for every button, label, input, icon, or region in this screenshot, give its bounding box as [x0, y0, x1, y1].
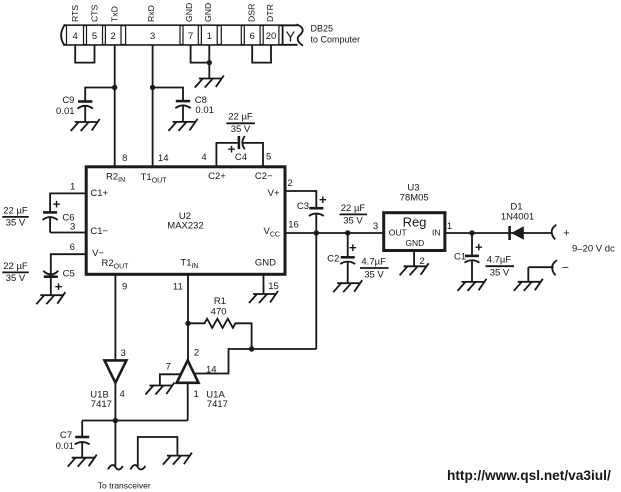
- svg-text:RTS: RTS: [70, 5, 80, 22]
- svg-text:20: 20: [266, 31, 277, 42]
- wire C4 loop pins 4-5: [216, 143, 263, 167]
- svg-text:9: 9: [122, 281, 127, 292]
- ground U2 pin 15: [249, 291, 278, 303]
- value 22uF 35V (C3): [340, 203, 368, 227]
- junction VCC / C3: [314, 230, 319, 235]
- svg-text:IN: IN: [432, 227, 441, 237]
- wire U3 pin 2 to ground: [413, 251, 415, 267]
- wire U2 pin 6 stub: [51, 254, 86, 274]
- wire VCC rail U2 pin 16 to regulator: [285, 232, 384, 234]
- svg-text:6: 6: [70, 242, 75, 253]
- wire U3 pin 1 to D1 anode: [445, 232, 552, 234]
- svg-text:–: –: [562, 261, 569, 273]
- svg-text:3: 3: [150, 31, 155, 42]
- connector J1 DB25 body: [61, 24, 303, 46]
- wire U2 pin 9 to U1B input: [114, 274, 116, 360]
- wire jumper DSR-DTR: [252, 45, 271, 63]
- svg-text:+: +: [55, 279, 63, 294]
- svg-text:35 V: 35 V: [6, 218, 26, 229]
- svg-text:3: 3: [373, 221, 378, 232]
- capacitor C3: [309, 208, 324, 233]
- svg-text:CTS: CTS: [90, 4, 100, 22]
- junction DB25 GND: [207, 60, 212, 65]
- svg-text:OUT: OUT: [389, 228, 407, 238]
- diode D1 1N4001: [510, 226, 524, 240]
- wire C9 branch: [85, 88, 115, 102]
- svg-text:22 µF: 22 µF: [341, 203, 366, 214]
- wire U1B output down: [114, 383, 116, 421]
- svg-text:14: 14: [158, 153, 169, 164]
- wire U2 pin 2 V+ stub: [285, 191, 316, 208]
- svg-text:http://www.qsl.net/va3iul/: http://www.qsl.net/va3iul/: [447, 468, 611, 483]
- value 4.7uF 35V (C1): [486, 255, 515, 279]
- svg-text:1N4001: 1N4001: [501, 211, 534, 222]
- svg-text:TxD: TxD: [110, 6, 120, 22]
- wire transceiver line 2 loop: [138, 437, 178, 466]
- ground - terminal: [514, 279, 543, 291]
- svg-text:V+: V+: [268, 188, 280, 199]
- terminal + 9-20V input: [552, 225, 570, 240]
- svg-text:22 µF: 22 µF: [3, 206, 28, 217]
- svg-text:22 µF: 22 µF: [3, 261, 28, 272]
- svg-text:C1−: C1−: [90, 226, 108, 237]
- svg-text:Y: Y: [286, 30, 296, 46]
- svg-text:2: 2: [420, 256, 425, 267]
- wire U2 pin 1 stub: [50, 193, 86, 212]
- capacitor C2: [340, 233, 355, 283]
- junction VCC / C2: [345, 230, 350, 235]
- wire - terminal to ground: [527, 267, 529, 282]
- junction bottom rail: [113, 418, 118, 423]
- cable mark line 1: [108, 465, 123, 469]
- svg-text:To transceiver: To transceiver: [98, 481, 151, 491]
- wire TxD from DB25 pin 2 to U2 pin 8: [114, 45, 116, 167]
- ground transceiver shield: [163, 453, 192, 465]
- junction C1: [469, 230, 474, 235]
- value 22uF 35V (C6): [2, 206, 29, 229]
- svg-text:7417: 7417: [91, 399, 112, 410]
- ground U3: [400, 263, 429, 275]
- wire jumper GND pins 7-1: [191, 45, 210, 63]
- ground U1A pin 7: [145, 383, 174, 395]
- value 22uF 35V (C4): [226, 112, 254, 135]
- svg-text:+: +: [349, 240, 357, 255]
- junction R1 / pin 11: [185, 321, 190, 326]
- svg-text:DSR: DSR: [247, 4, 257, 22]
- svg-text:22 µF: 22 µF: [228, 112, 253, 123]
- svg-text:35 V: 35 V: [364, 269, 384, 280]
- svg-text:1: 1: [447, 221, 452, 232]
- svg-text:RxD: RxD: [146, 5, 156, 22]
- svg-text:GND: GND: [405, 238, 424, 248]
- svg-text:0.01: 0.01: [56, 106, 75, 117]
- svg-text:2: 2: [194, 348, 199, 359]
- svg-text:3: 3: [70, 221, 75, 232]
- svg-text:to Computer: to Computer: [311, 35, 361, 45]
- svg-text:GND: GND: [184, 3, 194, 22]
- wire U2 pin 11 to U1A output: [187, 274, 189, 360]
- svg-text:2: 2: [288, 178, 293, 189]
- svg-text:C4: C4: [235, 152, 247, 163]
- wire U2 pin 3 stub: [50, 232, 86, 234]
- svg-text:0.01: 0.01: [195, 105, 214, 116]
- value 22uF 35V (C5): [2, 261, 29, 284]
- svg-text:+: +: [53, 197, 61, 212]
- regulator U3 78M05 body: [384, 213, 445, 251]
- svg-text:4: 4: [201, 152, 206, 163]
- svg-text:4.7µF: 4.7µF: [361, 256, 386, 267]
- svg-text:11: 11: [173, 281, 183, 292]
- svg-text:DTR: DTR: [265, 4, 275, 22]
- svg-text:35 V: 35 V: [343, 216, 363, 227]
- wire U2 pin 15 to ground: [263, 274, 265, 294]
- svg-text:MAX232: MAX232: [167, 221, 203, 232]
- svg-text:R1: R1: [214, 296, 226, 307]
- svg-text:4: 4: [73, 31, 78, 42]
- buffer U1A 7417: [177, 360, 199, 382]
- capacitor C5: [43, 271, 58, 295]
- svg-text:35 V: 35 V: [490, 268, 510, 279]
- op IC U2 MAX232 body: [86, 167, 285, 274]
- svg-text:9–20 V dc: 9–20 V dc: [572, 244, 615, 255]
- svg-text:4.7µF: 4.7µF: [487, 255, 512, 266]
- svg-text:14: 14: [206, 365, 217, 376]
- wire RxD from DB25 pin 3 to U2 pin 14: [152, 45, 154, 167]
- wire VCC to U1A pin 14: [195, 349, 316, 374]
- junction RxD / C8: [150, 85, 155, 90]
- capacitor C6: [43, 212, 58, 232]
- terminal - 9-20V input: [528, 260, 569, 275]
- buffer U1B 7417: [105, 360, 127, 382]
- wire C8 branch: [153, 88, 183, 102]
- junction R1 / VCC wire: [249, 346, 254, 351]
- svg-text:1: 1: [207, 31, 212, 42]
- wire U1A input down: [187, 383, 189, 421]
- svg-text:7: 7: [188, 31, 193, 42]
- ground DB25 GND: [195, 76, 224, 88]
- svg-text:1: 1: [194, 389, 199, 400]
- svg-text:C2: C2: [327, 253, 339, 264]
- wire jumper RTS-CTS: [75, 45, 94, 63]
- value 4.7uF 35V (C2): [360, 256, 389, 280]
- junction TxD / C9: [112, 85, 117, 90]
- svg-text:C5: C5: [63, 269, 75, 280]
- svg-text:2: 2: [111, 31, 116, 42]
- svg-text:1: 1: [70, 181, 75, 192]
- wire U1A pin 7 to ground: [160, 374, 184, 385]
- capacitor C7: [75, 421, 90, 458]
- svg-text:78M05: 78M05: [400, 192, 429, 203]
- wire DB25 GND to ground: [208, 63, 210, 79]
- capacitor C4: [239, 136, 245, 149]
- ground C2: [333, 280, 362, 292]
- resistor R1: [188, 319, 252, 349]
- capacitor C9: [78, 102, 93, 123]
- svg-text:7: 7: [166, 362, 171, 373]
- wire bottom rail: [82, 420, 188, 422]
- svg-text:6: 6: [250, 31, 255, 42]
- svg-text:C1+: C1+: [90, 188, 108, 199]
- svg-text:+: +: [563, 227, 569, 239]
- svg-text:3: 3: [121, 348, 126, 359]
- ground C7: [68, 455, 97, 467]
- svg-text:C3: C3: [297, 201, 309, 212]
- svg-text:35 V: 35 V: [6, 273, 26, 284]
- ground C1: [458, 279, 487, 291]
- svg-text:C7: C7: [60, 430, 72, 441]
- svg-text:4: 4: [120, 389, 125, 400]
- svg-text:15: 15: [268, 281, 279, 292]
- cable mark line 2: [130, 465, 145, 469]
- svg-text:8: 8: [122, 153, 127, 164]
- capacitor C1: [465, 233, 480, 282]
- svg-text:16: 16: [288, 220, 299, 231]
- svg-text:7417: 7417: [207, 399, 228, 410]
- svg-text:C2−: C2−: [255, 171, 273, 182]
- svg-text:C1: C1: [454, 251, 466, 262]
- capacitor C8: [175, 101, 190, 122]
- ground C5: [36, 292, 65, 304]
- svg-text:GND: GND: [255, 258, 276, 269]
- svg-text:5: 5: [92, 31, 97, 42]
- ground C9: [71, 119, 100, 131]
- svg-text:0.01: 0.01: [56, 441, 75, 452]
- ground C8: [169, 119, 198, 131]
- svg-text:GND: GND: [203, 3, 213, 22]
- svg-text:C9: C9: [62, 95, 74, 106]
- svg-text:35 V: 35 V: [231, 124, 251, 135]
- wire VCC feed down to buffers: [315, 233, 317, 349]
- svg-text:+: +: [319, 192, 327, 207]
- svg-text:470: 470: [211, 307, 227, 318]
- svg-text:C2+: C2+: [208, 171, 226, 182]
- svg-text:DB25: DB25: [311, 24, 334, 34]
- svg-text:5: 5: [266, 152, 271, 163]
- svg-text:+: +: [475, 240, 483, 255]
- wire transceiver line 1: [114, 421, 116, 467]
